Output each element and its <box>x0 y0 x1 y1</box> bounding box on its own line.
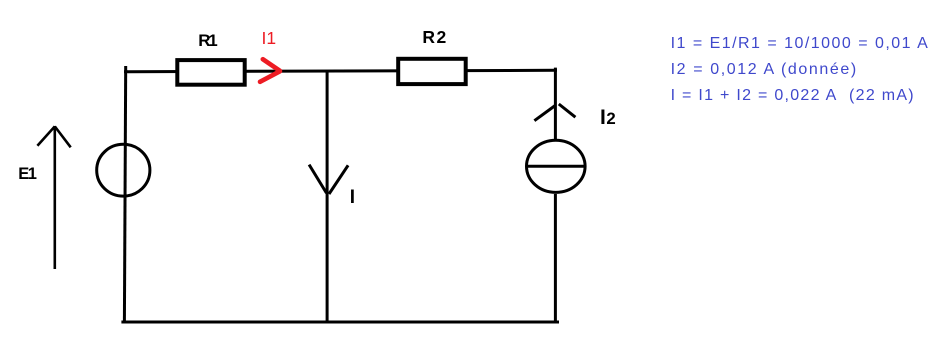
svg-text:E1: E1 <box>18 165 37 183</box>
annotation line 1: I1 = E1/R1 = 10/1000 = 0,01 A <box>671 35 930 52</box>
current source I2 (circle with horizontal bar) <box>527 140 586 192</box>
svg-text:R2: R2 <box>422 27 447 47</box>
wire: right vertical branch lower segment <box>554 194 557 323</box>
svg-text:I: I <box>350 187 355 208</box>
label I1 (red) <box>262 28 277 48</box>
svg-text:R1: R1 <box>198 31 217 50</box>
svg-text:I = I1 + I2 = 0,022 A (22 mA): I = I1 + I2 = 0,022 A (22 mA) <box>671 87 915 104</box>
wire: left vertical branch <box>124 66 125 322</box>
annotation line 2: I2 = 0,012 A (donnee) <box>671 61 858 78</box>
wire: right vertical branch upper segment <box>554 68 557 140</box>
arrow I (downward, middle branch) <box>309 165 348 194</box>
annotation line 3: I = I1 + I2 = 0,022 A (22 mA) <box>671 87 915 104</box>
label R1 <box>198 31 217 50</box>
wire: top horizontal (node between branches) <box>124 70 557 71</box>
svg-text:I1 = E1/R1 = 10/1000 = 0,01 A: I1 = E1/R1 = 10/1000 = 0,01 A <box>671 35 930 52</box>
label I (middle branch current) <box>350 187 355 208</box>
wire: middle vertical branch <box>326 70 329 323</box>
svg-text:I2 = 0,012 A (donnée): I2 = 0,012 A (donnée) <box>671 61 858 78</box>
label E1 <box>18 165 37 183</box>
svg-text:I1: I1 <box>262 28 277 48</box>
resistor R2 <box>398 59 466 84</box>
arrow E1 (upward, left of source) <box>37 126 70 269</box>
label I2 (right branch current) <box>600 106 616 129</box>
voltage source E1 (circle) <box>97 144 150 196</box>
wire: bottom horizontal <box>121 321 559 324</box>
arrow I2 (upward, right branch) <box>534 104 575 121</box>
current arrow I1 (red chevron on top wire) <box>260 59 280 82</box>
label R2 <box>422 27 447 47</box>
svg-text:I2: I2 <box>600 106 616 129</box>
resistor R1 <box>177 60 244 85</box>
